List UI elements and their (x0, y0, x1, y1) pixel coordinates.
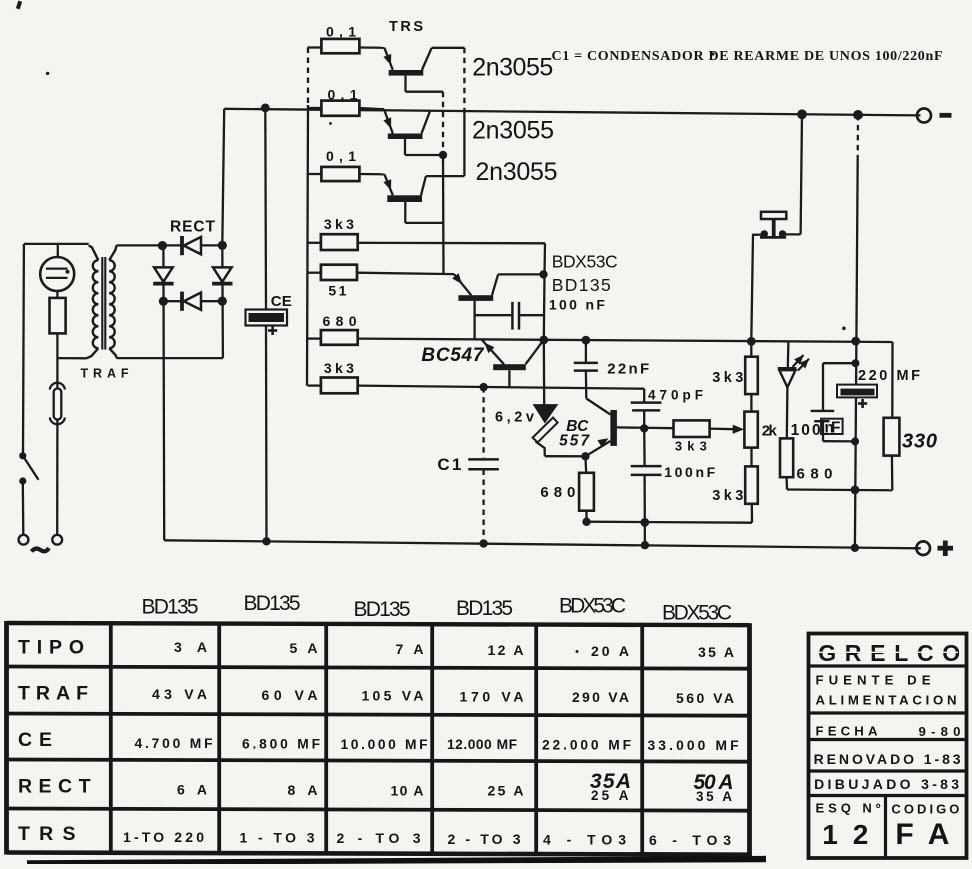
svg-text:10.000 MF: 10.000 MF (341, 737, 428, 752)
svg-text:557: 557 (559, 433, 590, 450)
svg-text:680: 680 (323, 313, 357, 329)
svg-text:22.000 MF: 22.000 MF (542, 738, 631, 753)
svg-text:2n3055: 2n3055 (472, 117, 554, 145)
svg-text:100nF: 100nF (664, 464, 715, 480)
svg-text:0,1: 0,1 (326, 148, 356, 164)
svg-text:nF: nF (825, 420, 841, 437)
svg-text:0,1: 0,1 (326, 24, 356, 40)
svg-text:BDX53C: BDX53C (662, 602, 732, 625)
svg-text:3k3: 3k3 (324, 360, 354, 376)
svg-text:4.700 MF: 4.700 MF (135, 736, 213, 751)
svg-text:22nF: 22nF (607, 361, 649, 378)
svg-text:BDX53C: BDX53C (559, 595, 626, 618)
svg-text:10 A: 10 A (391, 782, 424, 798)
svg-text:3k3: 3k3 (712, 488, 743, 504)
svg-text:8 A: 8 A (288, 782, 318, 798)
svg-text:0,1: 0,1 (328, 87, 358, 103)
svg-text:3k3: 3k3 (712, 370, 743, 386)
svg-text:1-TO 220: 1-TO 220 (123, 829, 204, 845)
svg-text:BDX53C: BDX53C (552, 252, 618, 272)
svg-text:BD135: BD135 (354, 598, 411, 621)
svg-text:C1: C1 (437, 455, 461, 474)
svg-text:FUENTE DE: FUENTE DE (816, 673, 931, 688)
svg-text:TRS: TRS (389, 19, 423, 35)
svg-text:2n3055: 2n3055 (476, 158, 558, 186)
svg-text:5 A: 5 A (290, 640, 318, 656)
svg-text:2n3055: 2n3055 (472, 54, 553, 82)
svg-text:330: 330 (902, 431, 937, 453)
svg-text:BD135: BD135 (552, 275, 611, 295)
svg-text:BC547: BC547 (421, 345, 484, 366)
svg-text:6,2v: 6,2v (495, 410, 534, 426)
svg-text:C1 = CONDENSADOR DE REARME DE: C1 = CONDENSADOR DE REARME DE UNOS 100/2… (552, 49, 943, 64)
svg-text:6.800 MF: 6.800 MF (242, 736, 320, 751)
svg-text:3k3: 3k3 (675, 438, 707, 453)
svg-text:BD135: BD135 (456, 597, 513, 620)
svg-text:TRS: TRS (18, 823, 76, 845)
svg-text:680: 680 (540, 484, 575, 501)
svg-text:2k: 2k (762, 423, 778, 440)
svg-text:12.000 MF: 12.000 MF (447, 737, 517, 752)
svg-text:3k3: 3k3 (324, 216, 354, 232)
svg-text:RECT: RECT (170, 218, 216, 235)
svg-text:6 A: 6 A (177, 782, 207, 798)
svg-text:BD135: BD135 (142, 596, 199, 619)
svg-text:680: 680 (797, 465, 833, 482)
svg-text:3 A: 3 A (174, 639, 207, 655)
svg-text:7 A: 7 A (396, 641, 424, 657)
svg-text:CE: CE (271, 293, 292, 310)
svg-text:100: 100 (791, 422, 821, 439)
svg-text:33.000 MF: 33.000 MF (648, 738, 739, 753)
svg-text:BD135: BD135 (244, 592, 301, 615)
svg-text:TIPO: TIPO (18, 637, 84, 659)
